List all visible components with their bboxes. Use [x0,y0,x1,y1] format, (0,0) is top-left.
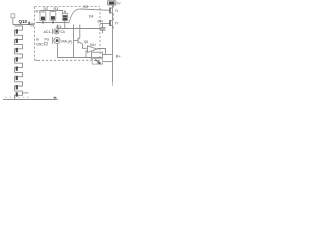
transistor T2 (row 2) [36,37,67,46]
bias rail [36,22,69,24]
terminal box VDD [108,1,116,5]
diode chain stage D7 [15,82,23,91]
svg-text:D4: D4 [89,15,93,19]
wire corner at IC bottom-left [35,59,39,61]
wire to Q9 base [80,9,110,10]
terminal label box TP1 [11,14,15,18]
supply rail [40,10,63,12]
svg-text:In: In [36,38,39,42]
transistor Q6 (P) [68,29,89,58]
bus stub [55,97,57,100]
svg-text:BU: BU [90,43,96,47]
wire [12,18,14,25]
pin stub [79,25,81,29]
wire to buffer input [83,44,88,48]
resistor R7 [92,52,103,57]
op-amp U2 [86,43,97,58]
wire: long node line [58,57,92,59]
transistor Q9 [110,5,119,16]
dashed lead-in [5,96,30,98]
diode chain stage D2 [15,35,23,44]
diode chain stage D4 [15,54,23,63]
pin square [31,23,34,26]
svg-text:OSC: OSC [36,42,44,46]
wire: buffer output [97,49,106,55]
svg-text:Pa: Pa [45,38,49,42]
diode chain stage D6 [15,73,23,82]
svg-text:DN: DN [98,20,104,24]
wire from T2 down [57,44,59,58]
svg-text:AC1-: AC1- [44,30,53,34]
svg-text:R3: R3 [54,7,59,11]
capacitor C4 [100,24,106,34]
ground bus [3,99,58,101]
resistor R2 [40,7,48,22]
svg-text:Q10: Q10 [19,19,28,24]
svg-text:Q6: Q6 [84,40,89,44]
svg-text:R2: R2 [44,7,49,11]
diode chain stage D1 [15,26,23,35]
output rail (vertical) [112,5,114,82]
svg-text:9V: 9V [117,2,122,6]
diode chain stage D5 [15,63,23,72]
pin stub [73,25,75,29]
buzzer BZ1 [91,58,113,65]
wire tap to IC pin [13,24,33,26]
resistor R3 [50,7,58,22]
svg-text:Tr: Tr [115,22,119,26]
svg-text:Ck: Ck [61,30,66,34]
IC dashed boundary [35,7,101,61]
svg-text:R1: R1 [36,10,41,14]
transistor Q3 [56,25,61,29]
transistor T1 (row 1) [44,29,66,35]
svg-text:D2: D2 [84,5,89,9]
transistor Q8 (chain bottom) [15,91,29,99]
wire: internal node bus [58,28,101,30]
wire [103,54,113,56]
wire rising arc [69,9,80,23]
transistor Q10b [98,18,119,29]
diode chain stage D3 [15,45,23,54]
svg-text:(P): (P) [68,40,73,44]
svg-text:Tr: Tr [115,9,119,13]
transistor Q2 [62,10,68,29]
svg-text:B+: B+ [116,53,122,58]
